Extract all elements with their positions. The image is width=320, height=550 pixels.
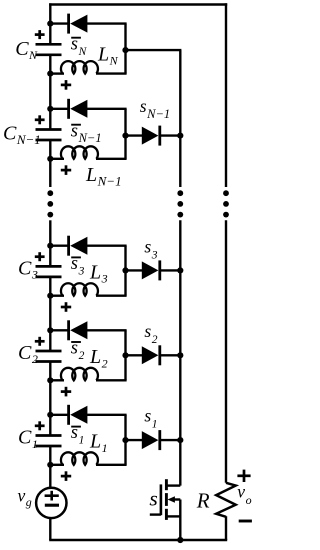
node: C_N-1 top plate / diode branch junction on left rail xyxy=(47,106,53,112)
polarity plus of capacitor C_2 xyxy=(35,337,45,346)
wire: left rail C_2 bottom to C_1 top xyxy=(49,362,51,436)
wire: switch column rail MOSFET source side down to bottom bus xyxy=(179,500,181,541)
label minus of output v_o xyxy=(239,520,252,523)
wire: switch column rail ellipsis gap down to MOSFET drain corner xyxy=(179,220,181,485)
wire: inductor L_1 to junction column xyxy=(96,464,127,466)
diode s-bar-1 (freewheel diode, cathode left) xyxy=(69,405,88,425)
label s-bar-3 xyxy=(71,254,85,278)
label s-bar-N-1 xyxy=(71,122,102,146)
capacitor C_2 xyxy=(36,351,62,362)
wire: switch diode s_3 to switch column xyxy=(160,269,181,271)
wire: inductor L_3 to junction column xyxy=(96,295,127,297)
node: s_1 tap on switch column xyxy=(177,437,183,443)
svg-text:vg: vg xyxy=(18,485,32,508)
label plus of output v_o xyxy=(237,470,250,482)
wire: switch diode s_2 to switch column xyxy=(160,354,181,356)
wire: left rail C_1 bottom to v_g source top xyxy=(49,446,51,488)
wire: inductor branch stage 2 lead-in xyxy=(50,379,64,381)
wire: left rail top segment (top bus to C_N top plate) xyxy=(49,3,51,44)
wire: top horizontal bus xyxy=(49,3,227,5)
polarity plus of capacitor C_1 xyxy=(35,421,45,430)
wire: junction column vertical stage N-1 xyxy=(124,109,126,159)
wire: diode branch stage 1 (left rail to junction column) xyxy=(50,414,68,416)
svg-text:L3: L3 xyxy=(89,261,108,285)
switch diode s_3 (cathode right) xyxy=(142,260,160,280)
inductor L_3 xyxy=(61,283,98,295)
label s-bar-1 xyxy=(71,423,85,447)
wire: inductor L_N-1 to junction column xyxy=(96,158,127,160)
svg-text:s2: s2 xyxy=(144,321,157,346)
wire: stage N junction to top of switch column xyxy=(126,49,182,51)
voltage source v_g xyxy=(36,488,66,518)
label s-bar-N xyxy=(71,35,88,59)
wire: inductor L_N to junction column xyxy=(96,72,127,74)
node: s_2 tap on switch column xyxy=(177,352,183,358)
inductor L_N xyxy=(61,61,98,73)
diode s-bar-3 (freewheel diode, cathode left) xyxy=(69,236,88,256)
wire: v_g source bottom to bottom bus xyxy=(49,518,51,540)
wire: inductor branch stage 1 lead-in xyxy=(50,464,64,466)
svg-text:CN: CN xyxy=(15,38,38,62)
wire: junction column vertical stage 2 xyxy=(124,330,126,380)
node: C_N bottom plate / inductor L_N junction on left rail xyxy=(47,71,53,77)
polarity plus of inductor L_1 xyxy=(61,471,71,481)
wire: diode branch stage 3 (left rail to junction column) xyxy=(50,244,68,246)
node: C_2 bottom plate / inductor L_2 junction on left rail xyxy=(47,377,53,383)
wire: stage 3 junction to switch diode s_3 xyxy=(126,269,144,271)
svg-text:L1: L1 xyxy=(89,431,108,455)
svg-text:s: s xyxy=(149,486,157,510)
wire: stage 2 junction to switch diode s_2 xyxy=(126,354,144,356)
continuation ellipsis dots on left rail xyxy=(47,190,53,217)
inductor L_1 xyxy=(61,452,98,464)
node: stage N-1 diode/inductor junction xyxy=(122,133,128,139)
svg-text:LN: LN xyxy=(97,43,119,67)
capacitor C_N-1 xyxy=(36,130,62,141)
polarity plus of capacitor C_N xyxy=(35,30,45,39)
wire: bottom return bus xyxy=(49,539,227,541)
wire: diode branch stage 2 (left rail to junction column) xyxy=(50,329,68,331)
wire: inductor branch stage N lead-in xyxy=(50,72,64,74)
continuation ellipsis dots on switch column xyxy=(177,190,183,217)
label s-bar-2 xyxy=(71,339,85,363)
switch diode s_1 (cathode right) xyxy=(142,430,160,450)
polarity plus of capacitor C_N-1 xyxy=(35,115,45,124)
node: C_2 top plate / diode branch junction on left rail xyxy=(47,327,53,333)
capacitor C_1 xyxy=(36,436,62,447)
transistor s (MOSFET switch) xyxy=(150,479,181,520)
diode s-bar-2 (freewheel diode, cathode left) xyxy=(69,320,88,340)
node: stage 1 diode/inductor junction xyxy=(122,437,128,443)
svg-text:vo: vo xyxy=(237,482,251,508)
wire: switch diode s_N-1 to switch column xyxy=(160,134,181,136)
node: s_3 tap on switch column xyxy=(177,267,183,273)
polarity plus of inductor L_N-1 xyxy=(61,165,71,175)
wire: left rail C_N bottom plate to C_N-1 top plate xyxy=(49,55,51,130)
wire: inductor L_2 to junction column xyxy=(96,379,127,381)
node: stage 2 diode/inductor junction xyxy=(122,352,128,358)
node: C_1 bottom plate / inductor L_1 junction on left rail xyxy=(47,462,53,468)
svg-text:R: R xyxy=(196,489,210,513)
wire: junction column vertical stage 3 xyxy=(124,246,126,296)
wire: resistor bottom to bottom bus xyxy=(225,516,227,540)
node: stage N diode/inductor junction xyxy=(122,47,128,53)
svg-text:s3: s3 xyxy=(144,237,157,262)
node: C_N top plate / diode branch junction on left rail xyxy=(47,21,53,27)
inductor L_2 xyxy=(61,368,98,380)
svg-text:s1: s1 xyxy=(144,406,157,431)
node: C_1 top plate / diode branch junction on left rail xyxy=(47,412,53,418)
inductor L_N-1 xyxy=(61,146,98,158)
node: C_3 top plate / diode branch junction on left rail xyxy=(47,243,53,249)
svg-text:C3: C3 xyxy=(18,257,38,281)
wire: diode branch stage N (left rail to junction column) xyxy=(50,22,68,24)
svg-text:sN−1: sN−1 xyxy=(140,96,170,121)
wire: left rail C_3 bottom to C_2 top xyxy=(49,277,51,351)
node: C_N-1 bottom plate / inductor L_N-1 junction on left rail xyxy=(47,156,53,162)
switch diode s_N-1 (cathode right) xyxy=(142,126,160,146)
wire: diode branch stage N-1 (left rail to junction column) xyxy=(50,108,68,110)
wire: junction column vertical stage 1 xyxy=(124,415,126,465)
svg-text:LN−1: LN−1 xyxy=(85,164,122,188)
wire: junction column vertical stage N xyxy=(124,24,126,74)
wire: switch diode s_1 to switch column xyxy=(160,439,181,441)
wire: switch column rail from stage-N junction down to s_N-1 (upper segment) xyxy=(179,50,181,187)
capacitor C_3 xyxy=(36,266,62,277)
switch diode s_2 (cathode right) xyxy=(142,345,160,365)
wire: stage N-1 junction to switch diode s_N-1 xyxy=(126,134,144,136)
polarity plus of inductor L_2 xyxy=(61,387,71,397)
svg-text:CN−1: CN−1 xyxy=(3,123,41,147)
wire: stage 1 junction to switch diode s_1 xyxy=(126,439,144,441)
node: C_3 bottom plate / inductor L_3 junction on left rail xyxy=(47,293,53,299)
svg-text:C2: C2 xyxy=(18,342,38,366)
polarity plus of capacitor C_3 xyxy=(35,252,45,261)
wire: inductor branch stage 3 lead-in xyxy=(50,295,64,297)
polarity plus of inductor L_N xyxy=(61,80,71,90)
wire: inductor branch stage N-1 lead-in xyxy=(50,158,64,160)
continuation ellipsis dots on right rail xyxy=(223,190,229,217)
wire: left rail C_N-1 bottom plate down to ellipsis gap xyxy=(49,140,51,187)
node: s_N-1 tap on switch column xyxy=(177,133,183,139)
svg-text:L2: L2 xyxy=(89,346,108,370)
node: MOSFET source on bottom bus xyxy=(177,537,183,543)
resistor R xyxy=(216,483,236,517)
node: stage 3 diode/inductor junction xyxy=(122,267,128,273)
svg-text:C1: C1 xyxy=(18,427,38,451)
diode s-bar-N-1 (freewheel diode, cathode left) xyxy=(69,99,88,119)
capacitor C_N xyxy=(36,44,62,55)
wire: right output rail (lower segment, ellipsis to resistor) xyxy=(225,220,227,483)
diode s-bar-N (freewheel diode, cathode left) xyxy=(69,14,88,34)
polarity plus of inductor L_3 xyxy=(61,302,71,312)
wire: left rail ellipsis gap to C_3 top plate xyxy=(49,220,51,266)
wire: right output rail (upper segment, above ellipsis) xyxy=(225,3,227,187)
